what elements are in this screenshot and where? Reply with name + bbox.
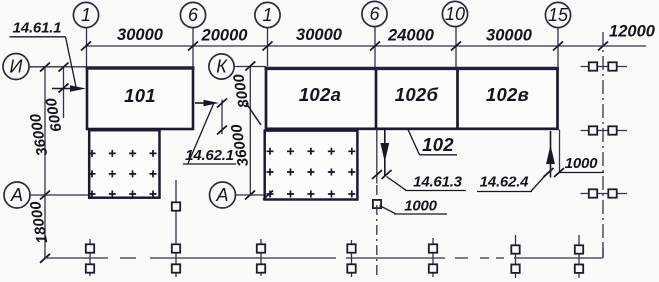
block row top heavy edge (265, 67, 560, 70)
tick on И line at 6000 line (59, 63, 69, 72)
svg-text:14.62.1: 14.62.1 (185, 147, 234, 164)
svg-text:6: 6 (369, 4, 380, 24)
left short dimension line 6000 (63, 67, 65, 118)
label 14.62.4 (477, 172, 549, 192)
axis circle 6 (180, 2, 205, 27)
svg-text:1000: 1000 (565, 155, 598, 172)
hatched annex block right (265, 131, 358, 200)
svg-text:102в: 102в (486, 84, 529, 105)
row circle А right (210, 182, 236, 208)
building block row 102 (266, 68, 558, 128)
svg-text:30000: 30000 (486, 27, 533, 45)
row line К (234, 66, 266, 68)
svg-text:102б: 102б (395, 84, 439, 105)
tick at bottom left (40, 254, 50, 263)
right column markers row mid (581, 126, 628, 134)
tick at К line (245, 62, 255, 71)
tick marks on top dimension line (81, 42, 608, 51)
tick at А left (40, 191, 50, 200)
row line А left (30, 194, 89, 196)
svg-text:1: 1 (262, 5, 272, 25)
up arrow 14.62.4 (546, 131, 555, 178)
bottom column line x579 (575, 235, 583, 278)
bottom column line x515 (511, 235, 519, 278)
axis circle 1b (255, 2, 280, 27)
bottom column line x351 (347, 240, 355, 277)
svg-text:И: И (10, 57, 23, 77)
tick on И line at 36000 line (40, 63, 50, 72)
dashed axis 6 continuation (376, 185, 378, 278)
axis circle 10 (442, 1, 467, 26)
right column markers row И (581, 62, 628, 70)
left vertical dimension line 36000/18000 (44, 67, 46, 258)
tick on 6000 arrow (59, 84, 69, 93)
8000 short dimension line (221, 100, 223, 135)
svg-text:10: 10 (445, 4, 465, 24)
right boundary dash-dot line (602, 32, 604, 258)
svg-text:К: К (216, 57, 228, 77)
svg-text:30000: 30000 (117, 26, 164, 44)
axis stem 15 (557, 28, 559, 67)
svg-text:102: 102 (422, 134, 454, 155)
building block 101 (87, 68, 193, 129)
svg-text:А: А (10, 185, 23, 205)
square marker on axis 6 (373, 200, 381, 208)
svg-text:14.61.3: 14.61.3 (413, 174, 463, 191)
svg-text:12000: 12000 (609, 23, 656, 41)
dimension line 1000 right (559, 172, 604, 174)
svg-text:15: 15 (548, 5, 569, 25)
svg-text:1000: 1000 (404, 198, 437, 215)
tick pair at axis 15 (544, 168, 565, 177)
label 102 with leader (408, 130, 457, 156)
label 14.62.1 (183, 104, 236, 164)
arrow 14.61.1 (52, 85, 86, 92)
tick pair below axis 6 (372, 170, 392, 179)
svg-text:14.62.4: 14.62.4 (480, 174, 530, 191)
right column markers row А (581, 189, 628, 197)
svg-text:А: А (215, 185, 228, 205)
row circle К (209, 54, 234, 79)
bottom column line x261 (257, 239, 265, 276)
down arrow 14.61.3 (380, 130, 389, 177)
block divider axis 10 (456, 68, 459, 129)
svg-text:102а: 102а (299, 84, 341, 105)
svg-text:6: 6 (188, 5, 199, 25)
axis circle 6c (362, 1, 387, 26)
hatched annex block left (89, 130, 159, 198)
axis stem 6 (192, 28, 194, 67)
svg-text:14.61.1: 14.61.1 (13, 20, 62, 37)
label 14.61.1 (10, 20, 77, 88)
block 101 top heavy edge (86, 66, 195, 69)
tick 8000 bottom (217, 126, 227, 135)
К dimension line 36000 (249, 66, 251, 195)
plus hatch marks right annex (267, 148, 356, 198)
bottom column line x90 (86, 239, 94, 276)
label 1000 left (380, 198, 448, 215)
arrow 14.62.1 (195, 100, 219, 107)
long slash К (246, 103, 261, 125)
svg-text:30000: 30000 (296, 26, 343, 44)
axis 6 line below blocks (376, 130, 378, 184)
row circle А left (4, 182, 30, 208)
axis circle 1 (73, 2, 98, 27)
svg-text:1: 1 (81, 5, 91, 25)
tick at А right on dim line (245, 191, 255, 200)
row circle И (3, 54, 29, 80)
axis 15 edge below blocks (559, 130, 561, 173)
axis circle 15 (545, 2, 570, 27)
axis stem 6b (374, 27, 376, 67)
tick 8000 top (217, 99, 227, 108)
row line А right (236, 194, 279, 196)
label 14.61.3 (387, 174, 467, 191)
bottom column line x176 (172, 180, 180, 277)
svg-text:20000: 20000 (201, 27, 249, 45)
svg-text:101: 101 (124, 85, 156, 106)
axis stem 1 (86, 28, 88, 67)
block divider axis 6 (375, 68, 378, 129)
axis stem 10 (455, 27, 457, 67)
tick at А right on block edge (263, 191, 273, 200)
row line И (29, 66, 86, 68)
plus hatch marks left annex (89, 150, 157, 198)
bottom column line x433 (429, 238, 437, 277)
axis stem 1b (267, 28, 269, 67)
svg-text:24000: 24000 (387, 27, 435, 45)
top dimension line (86, 45, 646, 47)
bottom boundary dash-dot line (44, 244, 603, 258)
